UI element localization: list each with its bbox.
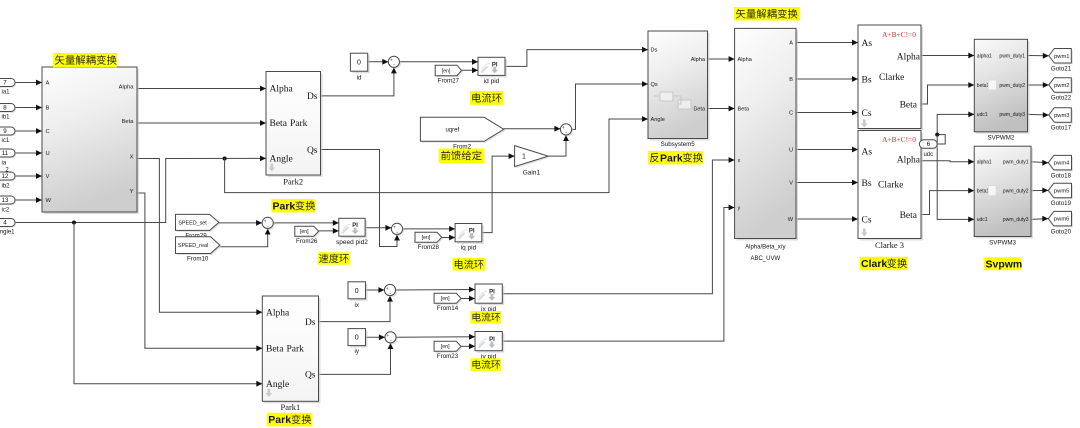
From tag SPEED_set (hidden From29) [176,214,221,232]
svg-text:SPEED_real: SPEED_real [178,243,208,249]
wire id pid to Subsystem5 Ds [505,47,648,67]
svg-text:Clarke: Clarke [878,180,903,190]
wire ABC_UVW A to Clarke1 [796,40,858,46]
svg-text:-: - [396,229,398,235]
svg-text:SVPWM2: SVPWM2 [987,134,1014,141]
sum sum_uq [560,124,573,137]
svg-text:alpha1: alpha1 [977,159,992,165]
wire sum_iy to iy pid [396,334,475,340]
svg-text:ABC_UVW: ABC_UVW [750,256,780,262]
label vector decouple transform (top-left) [53,53,117,67]
svg-text:U: U [46,151,50,157]
label current loop (iq) [453,258,486,271]
subsystem Alpha/Beta_x/y ABC_UVW [735,28,798,240]
svg-text:Beta: Beta [266,345,284,355]
wire SPEED_set to sum_speed [219,220,262,226]
svg-text:Goto19: Goto19 [1051,200,1072,207]
wire inport ib2 to V [15,173,42,179]
subsystem SVPWM2 [974,39,1029,134]
svg-text:11: 11 [2,150,9,157]
svg-text:U: U [789,147,793,153]
svg-text:0: 0 [355,288,359,295]
svg-text:From28: From28 [418,244,440,251]
svg-text:Park: Park [268,414,291,426]
svg-text:Beta: Beta [270,119,288,129]
wire sum_id to id pid [400,59,479,65]
svg-text:pwm6: pwm6 [1054,217,1069,223]
Goto tag pwm2 Goto22 [1049,78,1073,102]
svg-text:As: As [862,147,873,157]
svg-text:7: 7 [3,80,7,87]
svg-text:12: 12 [2,173,9,180]
wire From14 to ix pid en [461,296,475,302]
label Clark transform [860,257,908,270]
Goto tag pwm1 Goto21 [1049,49,1073,73]
wire ABC_UVW C to Clarke1 [796,110,858,116]
wire Beta to Park2 [137,120,266,126]
svg-text:Beta: Beta [900,211,918,221]
svg-text:A+B+C!=0: A+B+C!=0 [882,30,916,39]
svg-text:id pid: id pid [484,78,500,85]
wire SVPWM2 pwm2 [1028,82,1049,88]
label current loop (id) [470,91,504,105]
svg-text:Beta: Beta [738,106,750,112]
svg-text:C: C [789,110,793,116]
svg-text:Beta: Beta [900,100,918,110]
svg-text:Alpha: Alpha [738,57,753,63]
From tag [en] From26 [295,226,320,245]
svg-text:13: 13 [2,197,9,204]
Goto tag pwm4 Goto18 [1048,155,1073,179]
wire udc to SVPWM2 udc1 [937,112,974,145]
svg-text:Clark: Clark [861,258,887,270]
svg-text:pwm2: pwm2 [1054,83,1069,89]
wire inport ib1 to B [15,105,42,111]
svg-text:pwm4: pwm4 [1054,161,1070,167]
svg-text:Goto20: Goto20 [1051,228,1072,235]
svg-text:6: 6 [927,141,931,148]
wire inport ic2 to W [15,197,42,203]
inport 8 ib1 [0,104,16,113]
svg-text:[en]: [en] [300,229,309,235]
subsystem Clarke (upper) [858,25,923,131]
svg-text:pwm1: pwm1 [1054,54,1069,60]
wire uqref to sum_uq [504,126,561,132]
subsystem Clarke 3 (lower) [858,131,923,241]
svg-text:alpha1: alpha1 [977,53,992,59]
svg-text:pwm_duty1: pwm_duty1 [1003,159,1029,165]
wire angle1 to Park1 Angle [74,223,262,387]
wire Park2 Qs to sum_iq feedback [321,150,400,247]
svg-text:udc: udc [923,152,933,158]
wire From23 to iy pid en [461,343,475,349]
svg-text:Beta: Beta [122,119,135,125]
svg-text:x: x [738,158,741,164]
Goto tag pwm6 Goto20 [1048,211,1073,235]
svg-text:Ds: Ds [305,318,316,328]
label Svpwm [984,257,1022,270]
label current loop (iy) [471,358,502,371]
svg-text:pwm5: pwm5 [1054,188,1069,194]
svg-text:y: y [738,205,741,211]
svg-text:Alpha: Alpha [897,155,921,165]
svg-text:angle1: angle1 [0,230,15,236]
svg-text:iy: iy [354,348,359,355]
svg-text:pwm_duty3: pwm_duty3 [999,112,1025,118]
label speed loop [318,252,350,264]
wire const ix to sum_ix [366,287,385,293]
wire Clarke1 Alpha to SVPWM2 [921,53,974,59]
svg-text:Alpha: Alpha [266,309,290,319]
svg-text:8: 8 [3,105,7,112]
svg-text:Park: Park [273,200,296,212]
svg-text:speed pid2: speed pid2 [336,239,368,246]
svg-text:ic1: ic1 [2,138,10,144]
From tag [en] From27 [435,65,463,84]
svg-text:A: A [46,81,50,87]
inport 4 angle1 [0,219,16,228]
wire Clarke1 Beta to SVPWM2 beta1 [921,82,974,104]
wire iq pid to Gain1 [482,153,515,232]
svg-text:id: id [357,74,362,81]
wire Alpha to Park2 [137,86,266,92]
From tag SPEED_real From10 [176,237,222,263]
svg-text:Gain1: Gain1 [523,169,541,176]
Goto tag pwm3 Goto17 [1049,108,1073,132]
svg-text:-: - [267,223,269,229]
svg-text:Bs: Bs [862,75,872,85]
svg-text:0: 0 [357,60,361,67]
svg-text:A: A [789,40,793,46]
svg-text:Alpha: Alpha [270,85,294,95]
sum sum_ix [384,284,397,297]
pid block speed pid2 [336,218,368,246]
svg-text:W: W [788,217,794,223]
wire From28 to iq pid en [442,235,455,241]
svg-text:Park: Park [290,119,308,129]
svg-text:-: - [393,62,395,68]
wire Subsystem5 Alpha to ABC_UVW [708,56,735,62]
label inverse Park transform [648,151,703,165]
svg-text:Goto21: Goto21 [1051,65,1072,72]
svg-text:SVPWM3: SVPWM3 [989,240,1016,247]
subsystem Park1 [262,296,320,403]
svg-text:Alpha: Alpha [119,85,135,91]
svg-text:From14: From14 [437,305,459,312]
svg-text:4: 4 [3,220,7,227]
svg-text:[en]: [en] [422,235,431,241]
svg-text:Goto17: Goto17 [1051,125,1072,132]
inport 9 ic1 [0,127,16,136]
wire inport ia2 to U [15,150,42,156]
junction angle1 branch [72,221,76,225]
subsystem Park2 [266,72,323,178]
svg-text:pwm_duty3: pwm_duty3 [1003,217,1029,223]
wire ABC_UVW W to Clarke2 [796,216,858,222]
sum sum_speed [262,217,275,230]
svg-text:A+B+C!=0: A+B+C!=0 [882,135,916,144]
svg-text:ia1: ia1 [2,90,11,96]
wire SVPWM2 pwm1 [1028,53,1049,59]
svg-text:W: W [46,198,52,204]
svg-text:As: As [862,39,873,49]
svg-text:From10: From10 [187,256,209,263]
junction angle branch to Subsystem5 [223,157,227,161]
subsystem vector-decouple (input) [42,67,139,214]
svg-text:V: V [789,180,793,186]
From tag [en] From23 [434,341,462,360]
svg-text:9: 9 [3,128,7,135]
svg-text:Qs: Qs [307,146,318,156]
svg-text:Cs: Cs [862,215,872,225]
wire inport ic1 to C [15,128,42,134]
svg-text:Bs: Bs [862,179,872,189]
wire inport ia1 to A [15,80,42,86]
svg-text:Angle: Angle [266,380,289,390]
subsystem SVPWM3 [974,146,1033,238]
svg-text:1: 1 [522,154,526,161]
wire angle1 to Park2 Angle [15,156,266,223]
svg-text:From26: From26 [296,238,318,245]
wire From26 to speed pid2 en [319,228,339,234]
svg-text:ix: ix [354,302,359,309]
svg-text:Park: Park [660,152,683,164]
wire Park2 Ds feedback to sum_id [321,67,397,96]
svg-text:-: - [389,290,391,296]
svg-text:-: - [390,338,392,344]
svg-text:pwm3: pwm3 [1054,113,1069,119]
svg-text:beta1: beta1 [977,188,990,194]
svg-text:[en]: [en] [441,296,450,302]
svg-text:Qs: Qs [305,371,316,381]
wire sum_uq to Subsystem5 Qs [572,81,648,129]
wire Gain1 to sum_uq [548,135,569,156]
wire From27 to id pid en [460,67,478,73]
From tag [en] From14 [434,293,462,312]
sum sum_iq [391,223,404,236]
svg-text:From27: From27 [438,77,460,84]
svg-text:pwm_duty1: pwm_duty1 [999,53,1025,59]
svg-text:Alpha/Beta_x/y: Alpha/Beta_x/y [745,245,785,251]
wire const id to sum_id [368,59,389,65]
inport 13 ic2 [0,196,16,205]
svg-text:Alpha: Alpha [897,52,921,62]
inport 12 ib2 [0,172,16,181]
wire SVPWM2 pwm3 [1028,112,1049,118]
svg-text:Beta: Beta [693,106,705,112]
wire ABC_UVW V to Clarke2 [796,180,858,186]
svg-text:udc1: udc1 [977,112,988,118]
wire SVPWM3 pwm4 [1031,160,1048,166]
wire sum_speed to speed pid2 [273,220,339,226]
wire sum_iq to iq pid [403,226,456,232]
svg-text:ia: ia [2,161,7,167]
constant iy [348,329,368,348]
Goto tag pwm5 Goto19 [1048,183,1073,207]
wire Clarke2 Alpha to SVPWM3 [921,159,974,165]
wire Y to Park1 Beta [137,193,262,351]
wire speed pid2 to sum_iq [365,225,391,231]
pid block ix pid [475,284,504,313]
From tag [en] From28 [415,232,443,251]
svg-text:Clarke: Clarke [879,73,904,83]
svg-text:Cs: Cs [862,109,872,119]
wire SVPWM3 pwm6 [1031,216,1048,222]
wire SPEED_real to sum_speed [220,229,271,247]
label Park transform (lower) [267,413,312,427]
subsystem Subsystem5 (inverse Park) [648,31,710,141]
wire ABC_UVW U to Clarke2 [796,147,858,153]
constant ix [348,282,368,301]
svg-text:iq pid: iq pid [461,245,477,252]
inport 7 ia1 [0,79,16,88]
svg-text:ic2: ic2 [2,208,10,214]
gain Gain1 [515,146,550,177]
sum sum_iy [385,332,398,345]
svg-text:udc1: udc1 [977,217,988,223]
svg-text:ib1: ib1 [2,115,11,121]
svg-text:Angle: Angle [270,155,293,165]
svg-text:B: B [789,77,793,83]
svg-text:Y: Y [130,189,134,195]
svg-text:Subsystem5: Subsystem5 [661,141,696,148]
label current loop (ix) [471,311,502,324]
wire sum_ix to ix pid [396,287,475,293]
wire Clarke2 Beta to SVPWM3 beta1 [921,188,974,215]
wire X to Park1 Alpha [137,159,262,316]
wire Park1 Qs feedback to sum_iy [319,343,394,374]
svg-text:SPEED_set: SPEED_set [178,220,207,226]
svg-text:[en]: [en] [442,68,451,74]
sum sum_id [388,56,401,69]
wire udc to SVPWM3 udc1 [937,135,974,223]
svg-text:C: C [46,129,50,135]
svg-text:Qs: Qs [651,82,658,88]
pid block iy pid [475,332,504,361]
wire iy pid to ABC_UVW y [502,205,734,342]
wire ix pid to ABC_UVW x [502,157,734,294]
wire SVPWM3 pwm5 [1031,188,1048,194]
svg-text:Park1: Park1 [280,402,300,412]
svg-text:Park: Park [287,345,305,355]
svg-text:Svpwm: Svpwm [986,258,1023,270]
svg-text:Alpha: Alpha [691,57,706,63]
constant id [350,53,369,73]
svg-text:B: B [46,106,50,112]
svg-text:[en]: [en] [441,344,450,350]
inport 6 udc [919,140,938,150]
pid block iq pid [455,224,484,252]
svg-text:Goto18: Goto18 [1051,172,1072,179]
svg-text:beta1: beta1 [977,83,990,89]
svg-text:pwm_duty2: pwm_duty2 [1003,188,1029,194]
svg-text:From23: From23 [437,353,459,360]
svg-text:uqref: uqref [445,127,459,133]
svg-text:V: V [46,174,50,180]
label feedforward reference [439,149,484,164]
svg-text:X: X [130,155,134,161]
svg-text:Angle: Angle [651,117,665,123]
svg-text:Ds: Ds [307,92,318,102]
wire Subsystem5 Beta to ABC_UVW [708,106,735,112]
junction udc branch [935,133,939,137]
label Park transform (upper) [271,199,315,212]
wire ABC_UVW B to Clarke1 [796,76,858,82]
svg-text:pwm_duty2: pwm_duty2 [999,83,1025,89]
inport 11 ia2 [0,149,16,158]
svg-text:Park2: Park2 [283,176,303,186]
svg-text:0: 0 [355,335,359,342]
svg-text:ib2: ib2 [2,184,11,190]
wire const iy to sum_iy [366,334,385,340]
svg-text:Clarke 3: Clarke 3 [875,240,904,250]
svg-text:Ds: Ds [651,48,658,54]
svg-text:-: - [565,130,567,136]
From tag uqref From2 [420,117,505,150]
pid block id pid [478,57,507,85]
wire Park1 Ds feedback to sum_ix [319,296,393,322]
label vector decouple transform (top-middle) [734,7,800,21]
wire angle to Subsystem5 Angle [225,116,648,193]
svg-text:Goto22: Goto22 [1051,95,1072,102]
